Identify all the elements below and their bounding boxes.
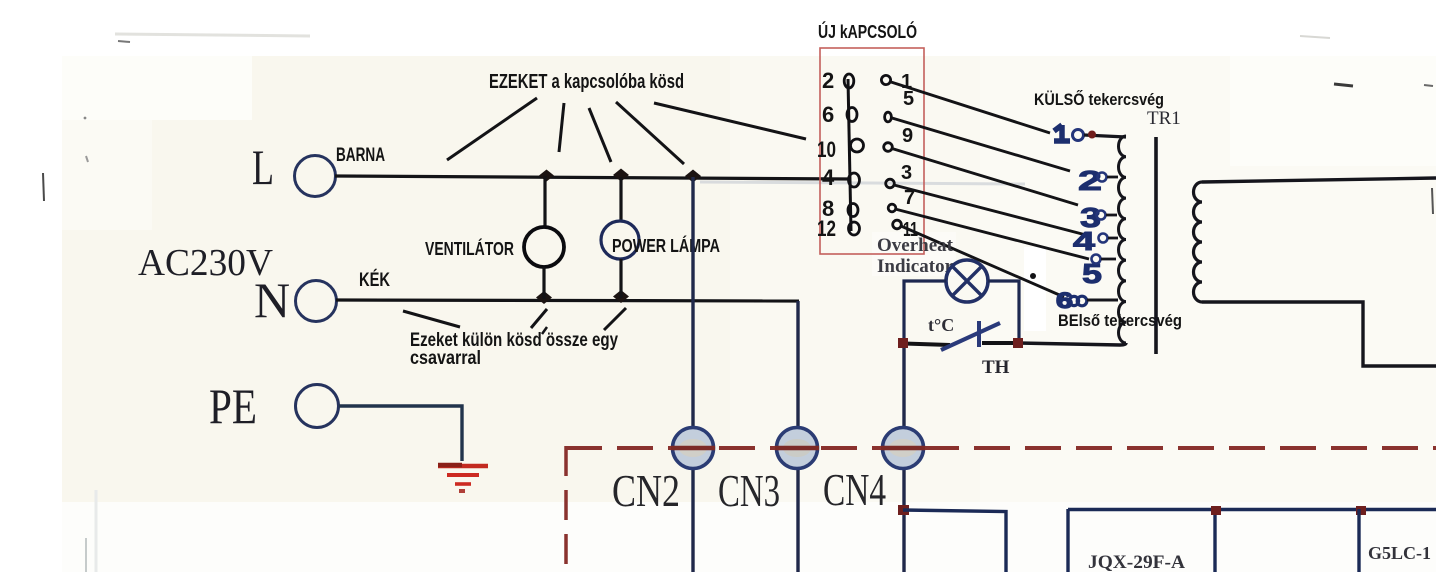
svg-text:KÜLSŐ tekercsvég: KÜLSŐ tekercsvég: [1034, 90, 1164, 109]
svg-text:TR1: TR1: [1147, 108, 1181, 129]
lamp left lead: [904, 281, 946, 342]
power lamp POWER LÁMPA: [601, 177, 720, 298]
svg-text:CN3: CN3: [718, 465, 780, 516]
terminal N: [254, 272, 337, 328]
svg-text:PE: PE: [209, 378, 257, 434]
fan VENTILÁTOR: [425, 176, 564, 299]
red dashed boundary vertical: [564, 446, 568, 572]
wire pin9 to tap3: [892, 149, 1078, 206]
node on pin11 wire: [1030, 273, 1036, 279]
svg-text:N: N: [254, 272, 290, 328]
overheat indicator lamp: [946, 260, 988, 302]
wire pin7 to tap5: [895, 209, 1089, 259]
svg-text:2: 2: [822, 68, 834, 93]
wire pin3 to tap4: [894, 185, 1086, 235]
callout line 3: [589, 108, 611, 162]
connector CN2: [673, 428, 714, 469]
thermal switch TH: [904, 315, 1018, 378]
svg-text:Indicator: Indicator: [877, 256, 954, 277]
switch S1 outline box: [820, 48, 924, 254]
svg-text:BARNA: BARNA: [336, 145, 385, 166]
svg-text:EZEKET a kapcsolóba kösd: EZEKET a kapcsolóba kösd: [489, 71, 684, 93]
scan white strip near tap6: [1024, 247, 1046, 331]
tap 4: [1073, 226, 1118, 256]
stray accent mark above össze: [542, 327, 547, 334]
svg-text:10: 10: [817, 137, 836, 162]
svg-text:KÉK: KÉK: [359, 269, 390, 291]
secondary bottom lead: [1202, 302, 1436, 366]
svg-text:L: L: [252, 139, 274, 195]
red dash over CN3: [775, 446, 819, 451]
callout line 1: [447, 98, 537, 160]
scan ghost along L bus: [700, 182, 1025, 184]
red dash over CN2: [671, 446, 715, 451]
svg-text:TH: TH: [982, 357, 1010, 378]
transformer core: [1154, 137, 1158, 354]
tap 5: [1082, 255, 1116, 290]
svg-text:t°C: t°C: [928, 315, 954, 335]
terminal PE: [209, 378, 339, 434]
wire PE to ground: [339, 406, 462, 461]
scan white halo overheat label: [872, 232, 956, 276]
svg-text:4: 4: [1073, 226, 1096, 256]
lamp right lead: [988, 281, 1019, 341]
CN4 drop wire: [902, 348, 905, 572]
transformer TR1 primary winding: [1118, 136, 1126, 343]
callout line 4: [616, 102, 684, 164]
svg-text:VENTILÁTOR: VENTILÁTOR: [425, 238, 514, 259]
CN3 drop wire: [796, 301, 799, 572]
callout line 6: [403, 311, 460, 327]
relay box JQX-29F-A: [1068, 509, 1436, 572]
transformer secondary winding: [1194, 182, 1203, 302]
junction TH right: [1013, 338, 1023, 348]
svg-text:BElső tekercsvég: BElső tekercsvég: [1058, 311, 1182, 330]
svg-text:12: 12: [817, 216, 836, 241]
svg-text:6: 6: [822, 102, 834, 127]
connector CN3: [777, 428, 818, 469]
wire L bus: [335, 176, 850, 179]
ground (protective earth): [438, 465, 488, 493]
primary bottom bend: [1018, 343, 1126, 345]
svg-text:Overheat: Overheat: [877, 235, 954, 256]
junction on N bus (lamp): [613, 290, 629, 303]
junction TH left: [898, 338, 908, 348]
tap 6: [1056, 288, 1118, 313]
junction relay bus 2: [1356, 506, 1366, 515]
callout line 8: [604, 308, 626, 330]
wire N bus: [336, 300, 799, 301]
callout line 7: [531, 309, 547, 328]
svg-text:csavarral: csavarral: [410, 348, 481, 369]
junction on L bus (fan): [539, 170, 554, 182]
junction on L bus (CN2 drop): [685, 170, 701, 183]
wire pin1 to tap1: [891, 82, 1050, 133]
svg-text:POWER LÁMPA: POWER LÁMPA: [612, 235, 720, 256]
tap 1: [1054, 125, 1126, 141]
junction on N bus (fan): [536, 291, 552, 304]
svg-text:5: 5: [903, 88, 914, 110]
tap 2: [1078, 165, 1118, 196]
callout line 2: [559, 103, 564, 152]
secondary top lead: [1202, 178, 1436, 182]
svg-text:G5LC-1: G5LC-1: [1368, 543, 1431, 563]
svg-text:JQX-29F-A: JQX-29F-A: [1088, 552, 1185, 572]
svg-text:ÚJ kAPCSOLÓ: ÚJ kAPCSOLÓ: [818, 21, 917, 42]
tap 3: [1080, 202, 1117, 233]
svg-text:CN2: CN2: [612, 465, 680, 516]
red dash over CN4: [881, 446, 925, 451]
terminal L: [252, 139, 336, 197]
CN2 drop wire: [691, 177, 694, 572]
svg-text:9: 9: [902, 125, 913, 147]
junction CN4 bottom: [898, 505, 909, 515]
callout line 5: [654, 103, 806, 139]
wire pin11 to tap6: [901, 226, 1064, 297]
wire CN4 to relay coil: [903, 510, 1006, 572]
svg-text:4: 4: [822, 165, 835, 190]
junction on L bus (lamp): [613, 169, 629, 182]
wire pin5 to tap2: [892, 118, 1070, 171]
switch common bar: [848, 79, 851, 231]
relay box G5LC: [1359, 509, 1431, 572]
red dashed boundary horizontal: [566, 446, 1436, 450]
svg-text:CN4: CN4: [823, 464, 886, 515]
svg-text:3: 3: [901, 162, 912, 184]
connector CN4: [883, 428, 924, 469]
junction relay bus 1: [1211, 506, 1221, 515]
